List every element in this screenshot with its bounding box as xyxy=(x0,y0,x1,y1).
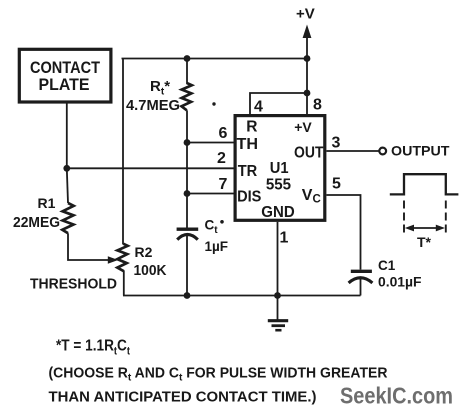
wire pin 7 node down to Ct xyxy=(186,194,188,228)
wire pin 1 GND stub xyxy=(277,222,279,320)
wire Ct bottom to ground rail xyxy=(186,236,188,296)
pulse width dashed line left xyxy=(403,201,405,235)
svg-text:OUT: OUT xyxy=(294,144,324,161)
svg-text:7: 7 xyxy=(219,176,228,193)
svg-text:R1: R1 xyxy=(38,195,56,211)
pin number 3 xyxy=(332,134,341,151)
contact plate box xyxy=(19,49,111,102)
junction dot pin 7 node xyxy=(184,190,191,197)
note line 1 xyxy=(49,365,388,383)
junction dot pin 6 node xyxy=(184,139,191,146)
pulse width dashed line right xyxy=(445,201,447,235)
svg-text:(CHOOSE Rt AND Ct FOR PULSE WI: (CHOOSE Rt AND Ct FOR PULSE WIDTH GREATE… xyxy=(49,365,388,383)
svg-text:0.01µF: 0.01µF xyxy=(378,274,422,290)
svg-text:8: 8 xyxy=(313,96,322,113)
svg-text:C1: C1 xyxy=(378,258,396,273)
wire Rt bottom to pin 6 node xyxy=(186,110,188,142)
junction dot Rt top xyxy=(184,55,191,62)
pin number 6 xyxy=(219,125,228,142)
svg-text:4: 4 xyxy=(254,99,263,116)
potentiometer R2 xyxy=(117,244,167,279)
svg-text:DIS: DIS xyxy=(237,189,262,206)
svg-text:3: 3 xyxy=(332,134,341,151)
svg-text:6: 6 xyxy=(219,125,228,142)
wire pin 2 from node A to IC xyxy=(67,167,234,169)
svg-text:U1: U1 xyxy=(270,160,289,177)
SeekIC.com watermark xyxy=(340,383,453,409)
wire contact plate to node A xyxy=(66,103,68,169)
svg-text:Rt*: Rt* xyxy=(150,78,170,98)
wire pin 3 output xyxy=(327,150,380,152)
wire pin 6 node down to pin 7 node xyxy=(186,143,188,194)
formula *T = 1.1RtCt xyxy=(56,338,130,358)
THRESHOLD label xyxy=(30,277,117,293)
svg-text:R2: R2 xyxy=(135,244,153,260)
capacitor Ct 1uF xyxy=(177,218,228,254)
svg-text:T*: T* xyxy=(417,234,432,250)
pulse waveform xyxy=(390,174,459,194)
bottom ground rail xyxy=(123,295,361,297)
svg-text:*T = 1.1RtCt: *T = 1.1RtCt xyxy=(56,338,130,358)
svg-text:4.7MEG: 4.7MEG xyxy=(126,97,180,114)
svg-text:OUTPUT: OUTPUT xyxy=(391,142,450,158)
wire pin 4 stub to +V line xyxy=(250,93,307,114)
output terminal circle xyxy=(379,148,386,155)
wire pin 6 xyxy=(187,142,234,144)
junction dot pin 4 / +V xyxy=(304,90,311,97)
svg-text:THAN ANTICIPATED CONTACT TIME.: THAN ANTICIPATED CONTACT TIME.) xyxy=(49,389,317,405)
svg-text:GND: GND xyxy=(261,204,294,221)
svg-text:THRESHOLD: THRESHOLD xyxy=(30,277,117,293)
svg-text:555: 555 xyxy=(266,177,291,194)
svg-text:R: R xyxy=(246,118,257,135)
stray dot mark xyxy=(212,102,215,105)
svg-text:1µF: 1µF xyxy=(205,239,229,254)
pin number 2 xyxy=(217,150,226,167)
wire top rail to R2 top xyxy=(122,59,124,245)
top +V rail xyxy=(122,58,308,60)
svg-text:2: 2 xyxy=(217,150,226,167)
svg-text:5: 5 xyxy=(332,175,341,192)
junction dot top rail / +V line xyxy=(304,55,311,62)
OUTPUT label xyxy=(391,142,450,158)
wire rail to Rt xyxy=(186,59,188,85)
svg-text:1: 1 xyxy=(280,230,289,247)
wire C1 bottom to ground rail xyxy=(360,279,362,296)
pin number 5 xyxy=(332,175,341,192)
resistor R1 xyxy=(13,195,74,233)
wire node A to R1 top xyxy=(67,168,68,203)
svg-text:TH: TH xyxy=(237,136,259,153)
svg-text:PLATE: PLATE xyxy=(39,75,90,94)
svg-text:+V: +V xyxy=(294,119,312,135)
pin number 4 xyxy=(254,99,263,116)
op-amp U1 555 IC box xyxy=(235,116,325,221)
resistor Rt 4.7MEG xyxy=(126,78,192,114)
wire R1 bottom to wiper arrow of R2 xyxy=(68,233,118,264)
junction dot Ct bottom xyxy=(184,292,191,299)
svg-text:+V: +V xyxy=(296,5,315,22)
svg-text:TR: TR xyxy=(238,163,258,180)
wire R2 bottom to ground rail xyxy=(123,271,125,296)
svg-text:SeekIC.com: SeekIC.com xyxy=(340,383,453,409)
pin number 1 xyxy=(280,230,289,247)
T* label xyxy=(417,234,432,250)
pin number 8 xyxy=(313,96,322,113)
wire pin 5 to C1 xyxy=(327,195,361,270)
capacitor C1 0.01uF xyxy=(349,258,422,290)
+V label xyxy=(296,5,315,22)
junction dot GND / rail xyxy=(274,292,281,299)
ground symbol xyxy=(268,321,288,331)
pulse width double arrow xyxy=(405,225,445,232)
svg-text:100K: 100K xyxy=(134,263,167,279)
+V supply line with arrow xyxy=(303,25,312,115)
node A junction dot xyxy=(63,165,70,172)
pin number 7 xyxy=(219,176,228,193)
note line 2 xyxy=(49,389,317,405)
wire pin 7 xyxy=(187,193,234,195)
svg-text:22MEG: 22MEG xyxy=(13,214,60,231)
